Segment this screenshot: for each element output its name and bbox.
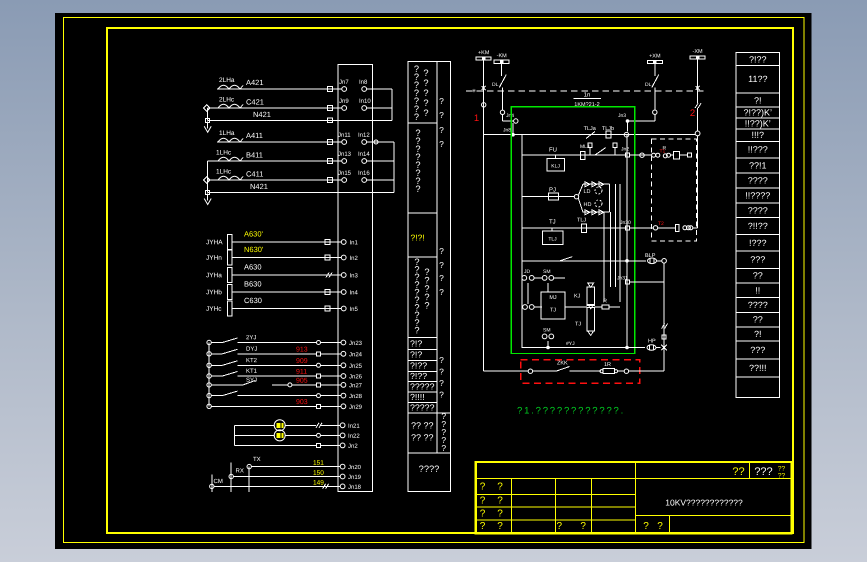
svg-text:PJ: PJ [549, 187, 556, 194]
svg-text:+XM: +XM [649, 53, 661, 59]
svg-text:?: ? [439, 273, 444, 283]
svg-text:In3: In3 [349, 272, 358, 279]
svg-text:In22: In22 [348, 433, 360, 440]
svg-text:Jn30: Jn30 [620, 220, 631, 226]
svg-text:JD: JD [524, 269, 531, 275]
svg-text:?? ??: ?? ?? [411, 433, 434, 443]
svg-text:!!???: !!??? [748, 144, 768, 154]
svg-text:TX: TX [253, 456, 261, 463]
svg-text:DL: DL [645, 82, 652, 88]
svg-text:?!: ?! [754, 329, 762, 339]
svg-text:?: ? [497, 508, 503, 519]
svg-text:?1.????????????.: ?1.????????????. [517, 406, 625, 417]
svg-text:2LHa: 2LHa [219, 77, 235, 84]
svg-text:?: ? [439, 355, 444, 365]
svg-text:Jn31: Jn31 [617, 276, 628, 282]
svg-text:#YJ: #YJ [566, 341, 575, 347]
svg-text:?!!??: ?!!?? [748, 221, 768, 231]
svg-text:??: ?? [753, 314, 763, 324]
svg-text:Jn20: Jn20 [348, 464, 362, 471]
svg-text:????: ???? [748, 300, 768, 310]
svg-text:✳: ✳ [472, 88, 476, 94]
svg-text:N421: N421 [253, 110, 271, 119]
svg-text:!!??)K’: !!??)K’ [745, 118, 771, 128]
svg-text:?: ? [414, 325, 419, 335]
svg-text:?!??)K’: ?!??)K’ [744, 107, 773, 117]
svg-text:11??: 11?? [748, 74, 767, 84]
svg-text:?!: ?! [754, 95, 762, 105]
svg-text:KT1: KT1 [246, 368, 258, 375]
svg-text:?: ? [439, 378, 444, 388]
svg-text:Jn19: Jn19 [348, 474, 362, 481]
svg-text:2LHc: 2LHc [219, 97, 235, 104]
svg-text:KT2: KT2 [246, 357, 258, 364]
svg-text:?? ??: ?? ?? [411, 421, 434, 431]
svg-text:?!?!: ?!?! [410, 233, 424, 243]
svg-text:B630: B630 [244, 280, 262, 289]
svg-text:?: ? [439, 125, 444, 135]
svg-text:?: ? [441, 443, 446, 453]
svg-text:In12: In12 [358, 132, 370, 139]
svg-text:Jn23: Jn23 [349, 340, 363, 347]
svg-text:In4: In4 [349, 289, 358, 296]
svg-text:Jn2: Jn2 [348, 443, 358, 450]
svg-text:Jn28: Jn28 [349, 393, 363, 400]
svg-text:A630': A630' [244, 230, 264, 239]
svg-text:In16: In16 [358, 170, 370, 177]
svg-text:Jn4: Jn4 [506, 113, 514, 119]
svg-text:!!????: !!???? [745, 190, 770, 200]
svg-text:Jn7: Jn7 [339, 79, 349, 86]
svg-text:????: ???? [748, 205, 768, 215]
svg-text:TLJ: TLJ [548, 236, 557, 242]
svg-text:DL: DL [492, 82, 499, 88]
svg-text:SM: SM [543, 328, 551, 334]
svg-text:?: ? [439, 389, 444, 399]
svg-text:A421: A421 [246, 78, 264, 87]
svg-text:Jn13: Jn13 [338, 151, 352, 158]
svg-text:!!: !! [755, 285, 760, 295]
svg-text:?: ? [497, 495, 503, 506]
svg-text:R: R [603, 299, 607, 305]
svg-text:Jn18: Jn18 [348, 484, 362, 491]
svg-text:SYJ: SYJ [246, 377, 257, 384]
svg-text:1n: 1n [584, 91, 591, 98]
svg-text:A411: A411 [246, 131, 263, 140]
svg-text:ZKK: ZKK [557, 361, 568, 367]
svg-text:?: ? [480, 495, 486, 506]
svg-text:RX: RX [235, 468, 243, 475]
svg-text:?!!!!: ?!!!! [410, 392, 425, 402]
svg-text:1: 1 [474, 113, 479, 124]
svg-text:??!1: ??!1 [749, 160, 767, 170]
svg-text:C421: C421 [246, 98, 264, 107]
svg-text:N630': N630' [244, 245, 264, 254]
svg-text:??: ?? [732, 466, 744, 478]
svg-text:?!?: ?!? [410, 350, 422, 360]
svg-text:TJ: TJ [550, 307, 556, 313]
svg-text:151: 151 [313, 460, 324, 467]
svg-text:?: ? [557, 521, 563, 532]
svg-text:FU: FU [549, 147, 557, 154]
svg-text:?????: ????? [410, 403, 435, 413]
svg-text:?: ? [415, 184, 420, 194]
svg-text:909: 909 [296, 358, 308, 365]
svg-text:T2: T2 [658, 221, 664, 227]
svg-text:?: ? [439, 366, 444, 376]
svg-text:In1: In1 [349, 239, 358, 246]
svg-text:KLJ: KLJ [551, 163, 560, 169]
svg-text:R: R [662, 146, 666, 152]
svg-text:CM: CM [213, 478, 222, 485]
svg-text:In2: In2 [349, 255, 358, 262]
svg-text:?: ? [439, 96, 444, 106]
svg-text:905: 905 [296, 378, 308, 385]
svg-text:In8: In8 [359, 79, 368, 86]
svg-text:??: ?? [778, 472, 786, 479]
svg-text:LD: LD [583, 189, 590, 195]
svg-text:?!??: ?!?? [410, 361, 427, 371]
svg-text:HP: HP [648, 339, 656, 345]
svg-text:???: ??? [754, 466, 772, 478]
svg-text:?: ? [424, 301, 429, 311]
svg-text:-KM: -KM [497, 53, 508, 59]
svg-text:911: 911 [296, 369, 307, 376]
svg-text:913: 913 [296, 347, 308, 354]
svg-text:?!?: ?!? [410, 339, 422, 349]
svg-text:?: ? [580, 521, 586, 532]
svg-text:????: ???? [748, 175, 768, 185]
svg-text:?: ? [480, 481, 486, 492]
svg-text:?!??: ?!?? [410, 371, 427, 381]
svg-text:1LHc: 1LHc [216, 169, 232, 176]
svg-text:?: ? [480, 521, 486, 532]
svg-text:N421: N421 [250, 182, 268, 191]
svg-text:!???: !??? [749, 238, 767, 248]
svg-text:1LHa: 1LHa [219, 130, 235, 137]
svg-text:903: 903 [296, 399, 308, 406]
svg-text:2YJ: 2YJ [246, 334, 256, 341]
svg-text:????: ???? [419, 464, 440, 474]
svg-text:In21: In21 [348, 423, 360, 430]
svg-text:Jn9: Jn9 [339, 98, 349, 105]
svg-text:?: ? [423, 78, 428, 88]
svg-text:?: ? [423, 68, 428, 78]
svg-text:Jn15: Jn15 [338, 170, 352, 177]
svg-text:1LHc: 1LHc [216, 150, 232, 157]
svg-text:?: ? [657, 521, 663, 532]
svg-text:150: 150 [313, 470, 324, 477]
svg-text:?: ? [414, 112, 419, 122]
svg-text:In10: In10 [359, 98, 371, 105]
svg-text:MJ: MJ [549, 295, 557, 301]
svg-text:SM: SM [543, 269, 551, 275]
svg-text:JYHc: JYHc [206, 306, 222, 313]
svg-text:149: 149 [313, 480, 324, 487]
svg-text:DYJ: DYJ [246, 346, 257, 353]
svg-text:???: ??? [750, 254, 765, 264]
svg-text:TJ: TJ [575, 322, 581, 328]
svg-text:Jn11: Jn11 [338, 132, 351, 139]
svg-text:HD: HD [583, 202, 591, 208]
svg-text:TLJa: TLJa [584, 126, 597, 132]
svg-text:?: ? [497, 481, 503, 492]
svg-text:???: ??? [750, 345, 765, 355]
svg-text:?: ? [497, 521, 503, 532]
svg-text:TLJ: TLJ [577, 218, 586, 224]
svg-text:In5: In5 [349, 306, 358, 313]
svg-text:JYHn: JYHn [206, 255, 222, 262]
svg-text:-XM: -XM [693, 49, 704, 55]
svg-text:JYHb: JYHb [206, 289, 222, 296]
svg-text:?: ? [439, 139, 444, 149]
svg-text:Jn2: Jn2 [621, 147, 629, 153]
svg-text:10KV????????????: 10KV???????????? [665, 497, 743, 507]
svg-text:+KM: +KM [478, 50, 490, 56]
svg-text:Jn25: Jn25 [349, 363, 363, 370]
svg-text:B411: B411 [246, 151, 263, 160]
svg-text:Jn29: Jn29 [349, 404, 363, 411]
svg-text:??: ?? [753, 270, 763, 280]
svg-text:??: ?? [778, 465, 786, 472]
svg-text:??!!!: ??!!! [749, 363, 767, 373]
svg-text:?: ? [439, 260, 444, 270]
svg-text:KJ: KJ [574, 294, 581, 300]
svg-text:1R: 1R [604, 362, 611, 368]
svg-text:JYHa: JYHa [206, 272, 222, 279]
svg-text:Jn27: Jn27 [349, 382, 363, 389]
svg-text:?: ? [643, 521, 649, 532]
svg-text:JYHA: JYHA [206, 239, 223, 246]
svg-text:C630: C630 [244, 296, 262, 305]
svg-text:?!??: ?!?? [749, 54, 767, 64]
svg-text:?: ? [439, 246, 444, 256]
svg-text:Jn24: Jn24 [349, 351, 363, 358]
svg-text:C411: C411 [246, 170, 263, 179]
svg-text:?: ? [480, 508, 486, 519]
svg-text:?: ? [423, 98, 428, 108]
svg-text:?: ? [423, 108, 428, 118]
svg-text:TJ: TJ [549, 219, 556, 226]
svg-text:?: ? [439, 287, 444, 297]
svg-text:Jn3: Jn3 [618, 113, 626, 119]
svg-text:Jn26: Jn26 [349, 373, 363, 380]
svg-text:?: ? [439, 110, 444, 120]
svg-text:A630: A630 [244, 263, 262, 272]
svg-text:?: ? [423, 88, 428, 98]
svg-text:!!!?: !!!? [752, 130, 765, 140]
svg-text:In14: In14 [358, 151, 370, 158]
svg-text:?????: ????? [410, 382, 435, 392]
svg-text:Jn8: Jn8 [503, 128, 511, 134]
svg-text:2: 2 [690, 108, 695, 119]
